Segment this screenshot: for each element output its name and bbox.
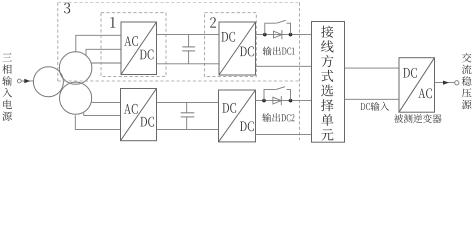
transformer primary winding circle	[33, 67, 63, 97]
capacitor C1 (upper dc link)	[182, 35, 195, 64]
wire: DC bus + to inverter	[345, 67, 400, 69]
dashed box 1 (AC/DC module)	[101, 13, 166, 77]
dashed divider line inside box 3	[58, 80, 300, 82]
label DC输入 (DC input)	[361, 102, 389, 111]
wire: upper dc link + rail	[157, 34, 220, 36]
label 接线方式选择单元 (wiring mode selection unit)	[321, 26, 334, 141]
label 1	[110, 17, 115, 27]
wire: lower secondary phase a	[91, 101, 120, 103]
output flow arrowhead	[443, 81, 449, 85]
wire: inverter AC output	[435, 82, 455, 84]
inverter block DC/AC (device under test)	[399, 58, 435, 112]
wiring-mode selection unit box	[312, 22, 345, 143]
wire: upper output - to selection unit	[256, 65, 312, 67]
wire: lower dc link - rail	[157, 128, 219, 130]
capacitor C2 (lower dc link)	[181, 102, 195, 129]
wire: upper secondary phase a	[76, 35, 121, 52]
rectifier block AC/DC (upper)	[121, 22, 157, 75]
converter block DC/DC (lower)	[219, 90, 256, 142]
wire with diode D2 and bypass switch S2 (output DC2 +)	[256, 100, 312, 102]
converter block DC/DC (upper)	[219, 22, 256, 75]
transformer secondary winding circle (lower)	[60, 82, 92, 114]
input terminal node	[17, 79, 21, 83]
dashed enclosure box 3 (top, left and right edges)	[58, 3, 300, 141]
wire: upper dc link - rail	[157, 63, 220, 65]
wire: lower output - to selection unit	[256, 133, 312, 135]
wire: lower dc link + rail	[157, 101, 219, 103]
label 3	[64, 3, 70, 14]
transformer secondary winding circle (upper)	[59, 52, 92, 85]
wire: lower secondary phase b	[84, 113, 121, 116]
label: three-phase input power (三相输入电源)	[2, 53, 12, 121]
wire: upper secondary phase c	[91, 62, 121, 64]
wire: DC bus - to inverter	[345, 98, 400, 100]
wire: terminal to transformer primary	[21, 80, 34, 82]
dashed box 2 (DC/DC module)	[204, 13, 256, 77]
rectifier block AC/DC (lower)	[121, 89, 157, 141]
input flow arrowhead	[24, 79, 30, 83]
label 输出DC1	[263, 47, 295, 56]
wire: upper secondary phase b	[86, 49, 121, 56]
label 2	[210, 17, 216, 27]
label 被测逆变器 (inverter under test)	[394, 114, 441, 123]
label: AC stabilized voltage source (交流稳压源)	[462, 53, 472, 109]
output terminal node	[455, 81, 459, 85]
label 输出DC2	[262, 113, 294, 122]
wire with diode D1 and bypass switch S1 (output DC1 +)	[256, 34, 312, 36]
wire: lower secondary phase c	[75, 115, 120, 129]
